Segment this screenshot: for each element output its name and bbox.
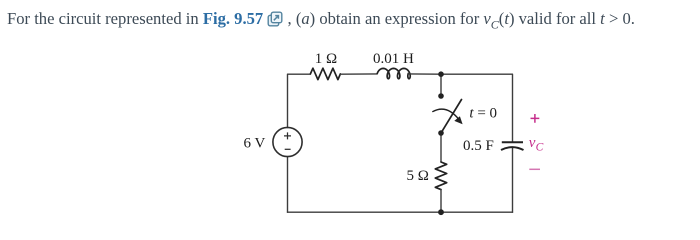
wire: switch bottom terminal to resistor R2 <box>440 133 442 162</box>
resistor R2 5 ohm (vertical zigzag) <box>435 162 446 190</box>
voltage source V1 6V <box>273 127 302 156</box>
svg-text:vC: vC <box>529 135 544 153</box>
wire: node A to top-right corner, down right side to capacitor <box>441 74 513 142</box>
wire: bottom rail <box>288 211 513 213</box>
external-link icon <box>267 11 283 27</box>
wire: resistor R2 to bottom node <box>440 190 442 213</box>
wire: left side below source <box>287 157 289 213</box>
svg-text:0.5 F: 0.5 F <box>463 138 494 154</box>
node A (junction dot, top) <box>438 71 444 77</box>
label + (capacitor polarity, magenta) <box>531 114 540 123</box>
problem statement text <box>7 9 697 32</box>
inductor L1 0.01 H (coil) <box>377 68 410 78</box>
switch terminal dot (top) <box>438 93 444 99</box>
svg-text:1 Ω: 1 Ω <box>315 51 337 67</box>
capacitor C1 0.5 F <box>501 142 524 150</box>
label - (capacitor polarity, magenta) <box>529 168 540 170</box>
switch S1 <box>432 93 462 136</box>
svg-text:0.01 H: 0.01 H <box>373 51 414 67</box>
svg-text:t = 0: t = 0 <box>469 106 497 122</box>
svg-text:6 V: 6 V <box>244 136 266 152</box>
wire: top-left corner to resistor R1 <box>288 74 311 127</box>
switch closing arc arrow <box>432 109 459 119</box>
switch blade <box>441 100 462 134</box>
resistor R1 1 ohm (horizontal zigzag) <box>310 68 340 79</box>
wire: resistor R1 to inductor L1 <box>340 73 377 75</box>
wire: capacitor C1 to bottom rail <box>512 147 514 212</box>
node B (junction dot, bottom) <box>438 209 444 215</box>
svg-text:5 Ω: 5 Ω <box>407 168 429 184</box>
wire: inductor L1 to node A <box>408 73 441 75</box>
switch terminal dot (bottom) <box>438 130 444 136</box>
wire: switch stub from node A <box>440 74 442 96</box>
